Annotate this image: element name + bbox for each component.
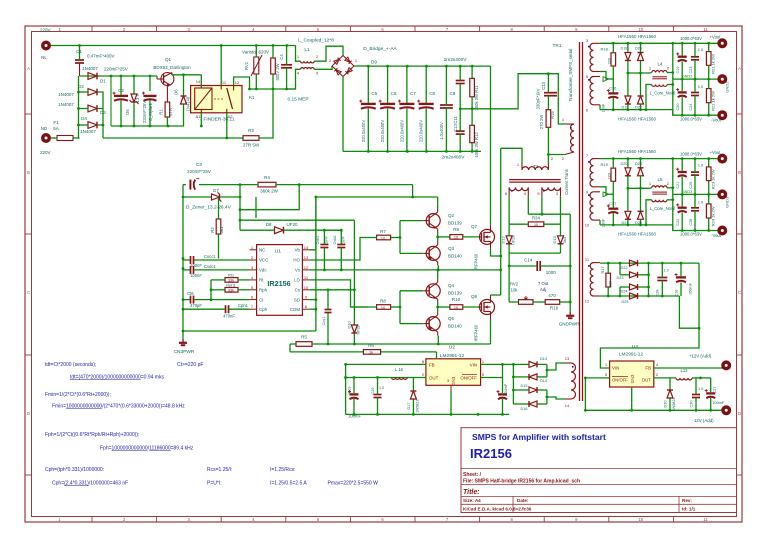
IC U2 LM2991-12: [422, 345, 485, 392]
capacitor filter top polar L5: [676, 159, 687, 195]
svg-text:LM2991-12: LM2991-12: [619, 352, 644, 358]
svg-text:IRFP460: IRFP460: [474, 253, 479, 270]
wire aux right tie: [647, 263, 650, 296]
wire relay coil bottom: [200, 113, 203, 128]
svg-text:R10: R10: [452, 297, 461, 302]
svg-text:D8: D8: [266, 222, 272, 227]
svg-text:tdt=(470*2000)/1000000000000=0: tdt=(470*2000)/1000000000000=0.94 mks: [70, 375, 164, 381]
wire boot top rail: [315, 196, 438, 199]
wire diode ladder right: [97, 92, 104, 138]
transformer TR1 secondary winding B1: [586, 153, 600, 194]
svg-text:C12: C12: [453, 123, 458, 131]
bridge rectifier D9: [329, 46, 398, 77]
svg-text:Cph1: Cph1: [238, 303, 249, 308]
transformer T1 secondary A: [505, 187, 528, 196]
svg-text:CN3PWR: CN3PWR: [174, 349, 195, 355]
wire L4 upper out: [667, 72, 673, 74]
svg-text:COM: COM: [290, 307, 301, 312]
note formula tdt line1: [45, 362, 203, 368]
capacitor C16 10nF: [602, 79, 619, 112]
svg-text:1N4007: 1N4007: [82, 66, 98, 71]
svg-text:Cs: Cs: [295, 288, 301, 293]
svg-text:Title:: Title:: [463, 489, 480, 496]
resistor R12 100k 2W: [470, 109, 479, 158]
capacitor C3 220mF*25V: [183, 162, 211, 190]
IC U1 IR2156: [250, 245, 310, 316]
wire R16 to gndpwr: [560, 301, 572, 304]
wire lower base rail: [399, 291, 402, 324]
svg-text:R23 1k 2W: R23 1k 2W: [711, 169, 716, 189]
svg-text:Q4: Q4: [448, 283, 455, 288]
wire Q4 Q5 emitters: [436, 303, 439, 312]
svg-text:5k1: 5k1: [219, 226, 224, 233]
svg-text:K1: K1: [249, 95, 255, 100]
svg-text:Vb: Vb: [295, 248, 301, 253]
svg-text:10: 10: [381, 306, 385, 310]
note formula Fmin line2: [52, 404, 185, 410]
svg-text:D10: D10: [347, 321, 352, 329]
svg-text:C19: C19: [348, 387, 352, 394]
wire out mid rail L5: [673, 193, 718, 196]
wire Q4 collector up: [436, 269, 439, 279]
wire LO to R8: [309, 280, 368, 307]
svg-text:U3: U3: [632, 344, 638, 350]
svg-text:R9: R9: [453, 227, 459, 232]
diode D15 rect: [513, 384, 547, 393]
diode D21: [622, 188, 631, 225]
svg-text:A1: A1: [196, 114, 202, 119]
text HFA1560 top L5: [618, 149, 656, 154]
svg-text:D_Bridge_+-AA: D_Bridge_+-AA: [363, 46, 397, 52]
svg-text:1N4007: 1N4007: [58, 92, 74, 97]
resistor R17 680: [600, 263, 613, 296]
svg-text:D24: D24: [621, 290, 628, 294]
svg-text:RV1: RV1: [244, 61, 249, 70]
wire sense row: [312, 343, 491, 346]
capacitor Ct6 470pF: [183, 291, 250, 308]
wire D7 junction up: [239, 183, 242, 198]
svg-text:F1: F1: [53, 120, 59, 125]
svg-text:C18: C18: [675, 290, 679, 297]
svg-text:D: D: [27, 411, 30, 416]
svg-text:Rt: Rt: [259, 278, 264, 283]
svg-text:10: 10: [304, 285, 309, 290]
text HFA1560 bottom L5: [618, 232, 656, 237]
svg-text:U2: U2: [449, 345, 455, 351]
svg-text:Cvcc1: Cvcc1: [204, 254, 216, 259]
svg-text:C24: C24: [689, 104, 693, 111]
svg-text:+Vout: +Vout: [710, 150, 722, 155]
wire L4 caps left tie: [671, 43, 674, 115]
svg-text:C2: C2: [118, 88, 124, 93]
svg-text:13 V: 13 V: [135, 93, 140, 102]
resistor R24 10: [509, 216, 560, 228]
wire Q2 Q3 emitters: [436, 233, 439, 242]
svg-text:R6: R6: [368, 343, 374, 348]
svg-text:Cvb1: Cvb1: [316, 236, 320, 245]
wire block L5 mid rail: [627, 187, 650, 190]
capacitor C13 330pF*1kV: [536, 74, 558, 110]
note formula Fph line2: [100, 446, 194, 452]
capacitor filter top polar L4: [676, 43, 687, 79]
svg-text:160mF: 160mF: [689, 282, 693, 294]
resistor R3 27R 5W: [243, 128, 260, 148]
inductor L4 L_Core: [649, 62, 675, 96]
wire D13-16 left tie: [512, 364, 515, 404]
resistor Rt1 33k: [211, 273, 250, 283]
connector +Vout L5: [710, 150, 728, 164]
wire Q3 collector down: [437, 265, 439, 270]
svg-text:A: A: [27, 66, 30, 71]
note formula I: [270, 467, 307, 487]
svg-text:Cph: Cph: [259, 307, 268, 312]
wire R9 to Q7 gate: [463, 236, 480, 238]
resistor R10 10: [450, 297, 463, 310]
svg-text:UF20: UF20: [286, 222, 298, 227]
svg-text:Cph=(tph*0.331)/1000000:: Cph=(tph*0.331)/1000000:: [45, 467, 104, 473]
svg-text:R2: R2: [210, 227, 215, 233]
wire Rt Rph tie: [210, 280, 213, 301]
svg-text:R3: R3: [248, 128, 254, 133]
capacitor C30 1.0: [690, 378, 704, 410]
diode D27: [635, 73, 643, 110]
svg-text:D23: D23: [617, 276, 624, 280]
svg-text:10: 10: [639, 517, 644, 522]
capacitor C15 100mF: [497, 383, 509, 414]
svg-text:Rev:: Rev:: [682, 498, 692, 503]
svg-text:R16: R16: [550, 306, 559, 311]
inductor L13: [654, 368, 701, 380]
svg-text:D4: D4: [81, 116, 87, 121]
capacitor filter top film L4: [689, 43, 704, 79]
capacitor C8 220.0x400V: [417, 66, 435, 151]
svg-text:C27: C27: [713, 387, 717, 394]
svg-text:D30: D30: [664, 401, 668, 408]
svg-text:C21: C21: [676, 182, 680, 189]
wire U3 onoff gnd: [584, 378, 586, 410]
wire U2 OUT left: [392, 377, 426, 379]
note formula Fmin line1: [45, 392, 111, 398]
svg-text:C20: C20: [676, 104, 680, 111]
zener D7: [183, 188, 238, 211]
wire mid bus: [111, 125, 184, 128]
wire D4 left stub: [79, 124, 89, 126]
wire C15 top tie: [502, 364, 504, 377]
wire COM net: [309, 308, 316, 310]
svg-text:-12V (Add): -12V (Add): [692, 418, 714, 423]
svg-text:HFA1560 HFA1560: HFA1560 HFA1560: [618, 34, 656, 39]
text 1000.0*63V top L5: [680, 151, 702, 156]
svg-text:10: 10: [534, 223, 538, 227]
svg-text:1N5822: 1N5822: [672, 397, 676, 410]
svg-text:ON/OFF: ON/OFF: [460, 376, 477, 381]
diode D17 1N5822: [407, 378, 419, 415]
wire half bridge node: [499, 148, 502, 295]
note formula Cph line2: [52, 481, 128, 487]
svg-text:D20: D20: [621, 162, 628, 166]
svg-text:D25: D25: [622, 300, 629, 304]
wire R3 to filter: [259, 89, 273, 138]
svg-text:12: 12: [304, 265, 309, 270]
svg-text:B: B: [27, 170, 30, 175]
wire aux bottom rail: [600, 295, 679, 298]
wire aux left tie top: [619, 263, 621, 275]
svg-text:10: 10: [454, 306, 458, 310]
connector NL: [40, 28, 51, 61]
wire Q4 base stub: [400, 290, 423, 292]
wire minus12 gnd bus: [584, 409, 726, 412]
relay K1 FINDER-36.11: [191, 79, 255, 123]
svg-text:C1: C1: [76, 49, 82, 54]
svg-text:Ct>=220 pF: Ct>=220 pF: [177, 362, 203, 368]
net label GND2 on mid rail: [682, 75, 693, 79]
svg-text:1000.0*63V: 1000.0*63V: [680, 116, 702, 121]
svg-text:Ct6: Ct6: [187, 291, 194, 296]
wire relay NC bottom: [225, 113, 228, 140]
svg-text:2m2x400V: 2m2x400V: [444, 57, 468, 63]
wire emitter to R10: [438, 306, 450, 308]
wire node to T1: [501, 148, 522, 164]
note formula Rcs: [207, 467, 232, 487]
svg-text:Ccs1: Ccs1: [322, 317, 326, 326]
wire Q2 collector up: [437, 197, 439, 209]
wire sense left col: [508, 253, 511, 302]
capacitor C17 10nF: [602, 194, 619, 227]
svg-text:D5: D5: [125, 109, 130, 115]
svg-text:14: 14: [196, 79, 201, 84]
wire T1 pin3 down: [560, 196, 562, 224]
svg-text:C11: C11: [453, 116, 458, 124]
wire rectifier top bus: [80, 75, 158, 78]
svg-text:D16: D16: [521, 407, 528, 411]
svg-text:1N4148: 1N4148: [186, 96, 191, 111]
svg-text:L 16: L 16: [395, 367, 404, 372]
svg-text:3k3: 3k3: [562, 236, 567, 243]
svg-text:Cph=(2.4*0.331)/1000000=463 nF: Cph=(2.4*0.331)/1000000=463 nF: [52, 481, 128, 487]
svg-text:NC: NC: [259, 248, 265, 253]
potentiometer RV2 10k: [509, 281, 549, 304]
wire winding B2 bottom tie: [599, 220, 601, 225]
wire L4 lower out: [667, 84, 673, 86]
svg-text:File: SMPS Half-bridge IR2156: File: SMPS Half-bridge IR2156 for Amp.ki…: [463, 479, 580, 485]
diode D28: [635, 159, 643, 189]
wire half bridge mid rail: [459, 72, 565, 124]
wire com riser: [315, 197, 318, 331]
svg-text:R15: R15: [550, 110, 555, 118]
svg-text:1000.0*63V: 1000.0*63V: [680, 36, 702, 41]
wire L16 left: [344, 376, 379, 379]
svg-text:-Vout: -Vout: [711, 233, 722, 238]
capacitor C18 160mF: [675, 263, 693, 296]
svg-text:C7: C7: [410, 91, 416, 96]
svg-text:Q1: Q1: [165, 57, 172, 62]
svg-text:LO: LO: [294, 278, 300, 283]
svg-text:-Vout: -Vout: [711, 118, 722, 123]
wire pin14 link: [547, 397, 566, 399]
svg-text:L_Core_No@: L_Core_No@: [650, 206, 676, 211]
connector GND2 output: [717, 74, 729, 92]
svg-text:LM2991-12: LM2991-12: [440, 353, 465, 359]
svg-text:ON/OFF: ON/OFF: [612, 377, 628, 382]
svg-text:R4: R4: [264, 175, 270, 180]
svg-text:220.0x400V: 220.0x400V: [399, 120, 404, 143]
svg-text:D1: D1: [100, 79, 106, 84]
diode D20: [621, 159, 631, 189]
transformer TR1 secondary winding A1: [586, 38, 600, 79]
text 1000.0*63V top L4: [680, 36, 702, 41]
svg-text:L_Coupled_12*8: L_Coupled_12*8: [298, 38, 334, 44]
svg-text:FB: FB: [429, 362, 435, 367]
svg-text:SD: SD: [294, 297, 300, 302]
svg-text:1N4007: 1N4007: [58, 102, 74, 107]
svg-text:R18: R18: [601, 47, 609, 52]
wire relay coil top: [200, 75, 202, 86]
svg-text:SF28: SF28: [356, 324, 361, 334]
inductor L5 L_Core: [649, 177, 675, 211]
wire block L5 top rail: [600, 157, 718, 160]
transformer TR1 aux winding 13 14: [565, 356, 576, 408]
capacitor Cvb2 1mF: [333, 230, 346, 270]
svg-text:I=1.25/0.5=2.5 A: I=1.25/0.5=2.5 A: [270, 481, 307, 487]
svg-text:C5: C5: [371, 91, 377, 96]
transformer TR1 secondary winding B2: [585, 192, 600, 228]
svg-text:IRFP460: IRFP460: [474, 324, 479, 341]
resistor R22 1k 2W: [706, 79, 715, 115]
svg-text:R8: R8: [380, 299, 386, 304]
svg-text:0.15 MEP: 0.15 MEP: [287, 97, 308, 103]
resistor Rph1 33k: [211, 282, 250, 292]
svg-text:ND: ND: [41, 126, 48, 131]
svg-text:R19: R19: [601, 162, 609, 167]
svg-text:B: B: [738, 170, 741, 175]
svg-text:L13: L13: [681, 368, 689, 373]
diode D8 UF20: [240, 222, 341, 234]
wire row 220 to sense column: [240, 219, 354, 221]
capacitor C4 220mF*25V mylar: [142, 76, 157, 126]
svg-text:100k 2W R12: 100k 2W R12: [474, 132, 479, 158]
svg-text:R24: R24: [532, 216, 540, 221]
svg-text:GND3: GND3: [682, 190, 693, 194]
svg-text:HFA1560 HFA1560: HFA1560 HFA1560: [618, 232, 656, 237]
svg-text:D14: D14: [540, 379, 547, 383]
diode D29: [635, 188, 643, 225]
wire row 210: [240, 183, 301, 209]
capacitor C1 0.47mF*400V: [75, 46, 115, 77]
connector +12V Add: [689, 354, 731, 371]
svg-text:10: 10: [639, 27, 644, 32]
svg-text:GND3: GND3: [725, 196, 730, 208]
note formula tdt line2: [70, 375, 164, 381]
svg-text:D_Zener_13.2-26.4V: D_Zener_13.2-26.4V: [186, 205, 232, 211]
capacitor C14 1000: [509, 258, 570, 275]
svg-text:Q5: Q5: [448, 316, 455, 321]
svg-text:Sheet: /: Sheet: /: [463, 472, 482, 478]
svg-text:GN3: GN3: [630, 374, 635, 383]
svg-text:BD140: BD140: [448, 254, 462, 259]
svg-text:470nF: 470nF: [223, 314, 235, 319]
sheet field: [463, 472, 482, 478]
svg-text:GN3: GN3: [451, 376, 456, 385]
svg-text:14: 14: [304, 245, 309, 250]
resistor R2a: [210, 197, 224, 259]
svg-text:Rcs=1.25/I:: Rcs=1.25/I:: [207, 467, 232, 473]
svg-text:330pF*1kV: 330pF*1kV: [536, 88, 541, 109]
fuse F1: [51, 120, 80, 141]
wire filter bottom bus: [250, 88, 296, 91]
svg-text:1.0x400V: 1.0x400V: [439, 122, 444, 140]
svg-text:300V 2W: 300V 2W: [275, 63, 280, 80]
wire aux left tie bottom: [619, 287, 621, 296]
resistor R11 100k 2W: [470, 66, 479, 110]
svg-text:NL: NL: [41, 55, 47, 60]
wire Q1 collector: [172, 73, 201, 76]
svg-text:13: 13: [304, 255, 309, 260]
wire L5 lower out: [667, 199, 673, 201]
capacitor C11: [453, 66, 465, 124]
svg-text:Vdc: Vdc: [259, 268, 267, 273]
svg-text:L5: L5: [657, 177, 663, 182]
svg-text:VIN: VIN: [612, 366, 619, 371]
svg-text:IR2156: IR2156: [470, 446, 512, 461]
text HFA1560 top L4: [618, 34, 656, 39]
Title label: [463, 489, 480, 496]
diode D13 rect: [513, 357, 547, 367]
svg-text:D26: D26: [635, 47, 642, 51]
power ground GNDPWR: [559, 312, 580, 327]
inductor L16: [378, 367, 408, 379]
svg-text:D29: D29: [635, 221, 642, 225]
svg-text:D13: D13: [540, 357, 547, 361]
wire NL to C1 and relay bus: [51, 44, 296, 47]
resistor R21 1k 2W: [706, 43, 715, 79]
wire T1 pin6 down: [508, 196, 510, 224]
svg-text:R17: R17: [600, 266, 605, 274]
transistor Q1 BDX53 Darlington: [153, 57, 191, 91]
svg-text:11: 11: [703, 517, 708, 522]
wire Q3 base stub: [400, 252, 423, 254]
resistor R7 10: [368, 229, 400, 240]
svg-text:L1: L1: [304, 47, 310, 53]
inductor L1 coupled: [297, 38, 334, 76]
file field: [463, 479, 580, 485]
svg-text:C: C: [27, 290, 30, 295]
svg-text:FB: FB: [645, 366, 651, 371]
capacitor C29 1.0: [371, 378, 384, 415]
svg-text:BD139: BD139: [448, 221, 462, 226]
svg-text:R22 1k 2W: R22 1k 2W: [711, 91, 716, 111]
svg-text:1000.0*63V: 1000.0*63V: [680, 232, 702, 237]
svg-text:D9: D9: [371, 60, 377, 65]
wire R15 to TR1 pin2: [547, 153, 565, 156]
wire HV+ rail: [367, 65, 491, 68]
resistor R1: [159, 91, 174, 126]
svg-text:GND2: GND2: [682, 75, 693, 79]
diode D2 1N4007: [58, 84, 97, 97]
diode D24: [620, 284, 649, 294]
svg-text:Q3: Q3: [448, 246, 455, 251]
text 2m2x400V top: [444, 57, 468, 63]
wire relay contact top: [220, 46, 222, 86]
svg-text:100mF: 100mF: [712, 400, 725, 405]
svg-text:UF28: UF28: [511, 234, 516, 245]
wire relay contact out: [234, 77, 251, 90]
svg-text:C4: C4: [279, 54, 284, 60]
diode D25: [622, 293, 638, 304]
diode D30 1N5822: [664, 378, 677, 411]
svg-text:1.0: 1.0: [698, 47, 704, 52]
svg-text:HFA1560 HFA1560: HFA1560 HFA1560: [618, 116, 656, 121]
wire Vs rail: [309, 269, 500, 272]
